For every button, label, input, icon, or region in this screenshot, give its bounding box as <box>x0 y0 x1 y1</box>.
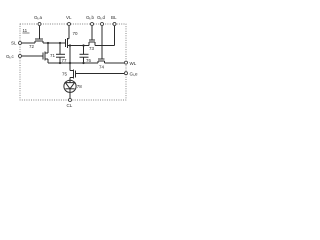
svg-text:Gi,b: Gi,b <box>86 15 95 21</box>
svg-text:Gi,d: Gi,d <box>97 15 106 21</box>
svg-text:CL: CL <box>67 103 73 108</box>
svg-text:VL: VL <box>66 15 72 20</box>
svg-text:71: 71 <box>50 53 56 58</box>
svg-text:75: 75 <box>62 72 68 77</box>
svg-text:Gi,e: Gi,e <box>130 72 139 78</box>
svg-text:11: 11 <box>23 28 28 33</box>
svg-text:76: 76 <box>86 58 92 63</box>
svg-text:SL: SL <box>11 41 17 46</box>
svg-text:74: 74 <box>99 65 105 70</box>
svg-text:78: 78 <box>77 84 83 89</box>
svg-text:73: 73 <box>89 46 95 51</box>
svg-text:72: 72 <box>29 44 35 49</box>
svg-text:Gi,c: Gi,c <box>6 54 15 60</box>
svg-text:77: 77 <box>62 58 68 63</box>
svg-text:70: 70 <box>73 31 79 36</box>
svg-text:BL: BL <box>111 15 117 20</box>
svg-text:WL: WL <box>130 61 137 66</box>
svg-text:Gi,a: Gi,a <box>34 15 43 21</box>
